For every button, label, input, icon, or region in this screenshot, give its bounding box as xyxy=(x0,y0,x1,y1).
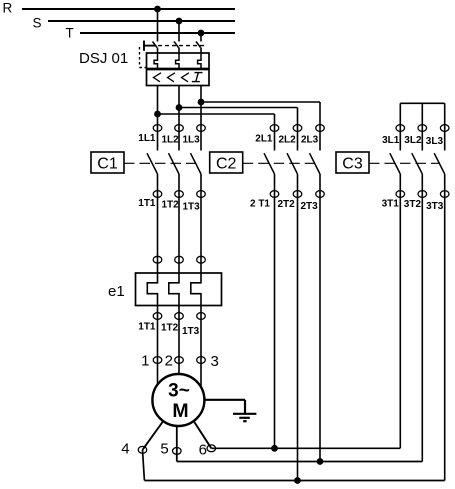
svg-text:1T3: 1T3 xyxy=(182,326,200,337)
svg-text:3L1: 3L1 xyxy=(382,135,400,146)
svg-text:DSJ 01: DSJ 01 xyxy=(79,50,128,67)
svg-text:1L2: 1L2 xyxy=(162,135,180,146)
svg-text:3T3: 3T3 xyxy=(426,201,444,212)
svg-text:C3: C3 xyxy=(342,155,363,172)
svg-text:1T2: 1T2 xyxy=(162,200,180,211)
svg-text:C2: C2 xyxy=(216,155,237,172)
svg-text:6: 6 xyxy=(199,441,207,458)
svg-text:2: 2 xyxy=(165,353,173,370)
svg-text:2L2: 2L2 xyxy=(279,135,297,146)
svg-text:4: 4 xyxy=(121,441,129,458)
svg-text:3L3: 3L3 xyxy=(426,136,444,147)
svg-text:2L1: 2L1 xyxy=(255,134,273,145)
svg-text:3: 3 xyxy=(211,353,219,370)
svg-text:5: 5 xyxy=(160,441,168,458)
svg-text:1T1: 1T1 xyxy=(138,198,156,209)
svg-text:1T3: 1T3 xyxy=(183,202,201,213)
svg-text:2T2: 2T2 xyxy=(278,199,296,210)
svg-text:2 T1: 2 T1 xyxy=(250,198,270,209)
svg-text:1T2: 1T2 xyxy=(161,323,179,334)
svg-text:1: 1 xyxy=(141,353,149,370)
svg-text:1T1: 1T1 xyxy=(138,322,156,333)
svg-text:C1: C1 xyxy=(97,155,118,172)
svg-text:3T2: 3T2 xyxy=(404,199,422,210)
svg-text:e1: e1 xyxy=(108,283,125,300)
svg-text:M: M xyxy=(172,400,188,422)
svg-text:2L3: 2L3 xyxy=(301,135,319,146)
svg-text:R: R xyxy=(3,1,13,16)
svg-text:3~: 3~ xyxy=(168,380,190,401)
svg-text:T: T xyxy=(66,26,74,41)
svg-text:3T1: 3T1 xyxy=(382,198,400,209)
svg-text:1L1: 1L1 xyxy=(138,133,156,144)
svg-text:S: S xyxy=(33,16,42,31)
svg-text:2T3: 2T3 xyxy=(301,201,319,212)
svg-text:3L2: 3L2 xyxy=(404,135,422,146)
svg-text:1L3: 1L3 xyxy=(183,135,201,146)
